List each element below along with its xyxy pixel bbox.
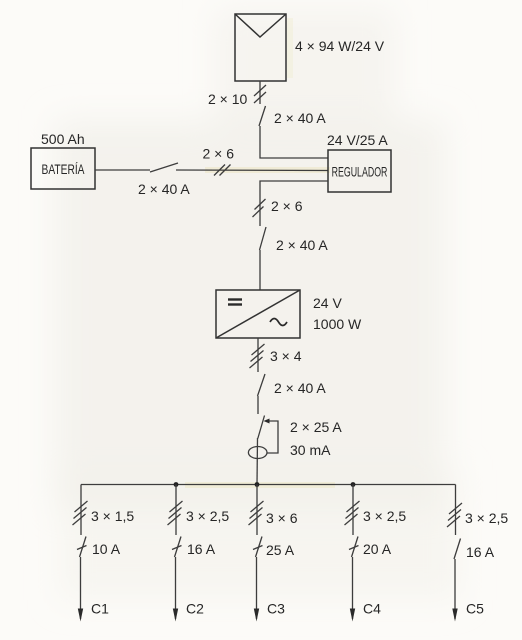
cable mark 2x6 double slash: [214, 165, 231, 176]
inverter U1 DC/AC: [216, 290, 300, 338]
svg-text:2 × 6: 2 × 6: [203, 146, 235, 162]
wire fuse F3 to RCD: [257, 396, 259, 414]
svg-text:3 × 4: 3 × 4: [270, 348, 302, 364]
node junction branch C3: [255, 482, 260, 487]
svg-text:2 × 40 A: 2 × 40 A: [138, 181, 190, 197]
regulator box REGULADOR: [328, 150, 391, 192]
svg-text:C1: C1: [91, 601, 109, 617]
branch C5: [447, 485, 462, 622]
svg-text:2 × 6: 2 × 6: [271, 198, 303, 214]
wire inverter to cable mark: [257, 338, 259, 372]
svg-text:30 mA: 30 mA: [290, 442, 331, 458]
svg-text:C5: C5: [466, 601, 484, 617]
fuse F2 2x40A: [260, 227, 267, 250]
RCD toroid: [248, 447, 267, 459]
wire panel to fuse: [259, 81, 261, 104]
node junction branch C2: [174, 482, 179, 487]
RCD differential switch: [258, 416, 278, 454]
svg-text:2 × 40 A: 2 × 40 A: [274, 110, 326, 126]
fuse F1 2x40A: [259, 106, 266, 126]
svg-text:20 A: 20 A: [363, 541, 392, 557]
branch C2: [168, 485, 183, 622]
svg-text:4 × 94 W/24 V: 4 × 94 W/24 V: [295, 38, 385, 54]
svg-text:10 A: 10 A: [92, 541, 121, 557]
battery box BATERIA: [31, 148, 95, 189]
cable mark 2x10 double slash: [254, 85, 266, 103]
svg-text:1000 W: 1000 W: [313, 316, 362, 332]
svg-text:REGULADOR: REGULADOR: [332, 165, 388, 181]
svg-text:C2: C2: [186, 601, 204, 617]
wire RCD to bus: [256, 438, 259, 485]
scan streak artifacts: [185, 18, 335, 488]
wire regulator bottom line to down spine: [260, 181, 328, 226]
svg-text:C4: C4: [363, 601, 381, 617]
svg-text:2 × 25 A: 2 × 25 A: [290, 419, 342, 435]
svg-text:24 V/25 A: 24 V/25 A: [327, 132, 388, 148]
wire battery to switch: [95, 169, 150, 171]
branch C4: [345, 485, 360, 622]
switch S1 battery disconnector: [150, 163, 178, 172]
wire fuse F2 to inverter: [259, 250, 261, 290]
svg-text:2 × 40 A: 2 × 40 A: [274, 380, 326, 396]
branch C3: [249, 485, 264, 622]
solar panel PV array: [235, 14, 286, 81]
svg-text:3 × 2,5: 3 × 2,5: [465, 510, 508, 526]
wire fuse to regulator top line: [260, 126, 328, 158]
svg-text:16 A: 16 A: [466, 544, 495, 560]
cable mark 3x4 triple slash: [250, 344, 265, 368]
distribution bus: [81, 484, 456, 486]
svg-text:2 × 10: 2 × 10: [208, 91, 248, 107]
wire switch to regulator middle line: [176, 169, 328, 172]
cable mark 2x6 double slash: [253, 199, 266, 217]
svg-text:24 V: 24 V: [313, 295, 342, 311]
svg-text:3 × 2,5: 3 × 2,5: [186, 508, 229, 524]
branch C1: [73, 485, 88, 622]
svg-text:500 Ah: 500 Ah: [41, 131, 85, 147]
svg-text:2 × 40 A: 2 × 40 A: [276, 237, 328, 253]
svg-text:3 × 1,5: 3 × 1,5: [91, 508, 134, 524]
svg-text:BATERÍA: BATERÍA: [42, 160, 86, 177]
svg-text:3 × 6: 3 × 6: [266, 510, 298, 526]
svg-text:16 A: 16 A: [187, 541, 216, 557]
fuse F3 2x40A: [258, 374, 266, 396]
svg-text:3 × 2,5: 3 × 2,5: [363, 508, 406, 524]
node junction branch C4: [351, 482, 356, 487]
svg-text:C3: C3: [267, 601, 285, 617]
svg-text:25 A: 25 A: [266, 542, 295, 558]
